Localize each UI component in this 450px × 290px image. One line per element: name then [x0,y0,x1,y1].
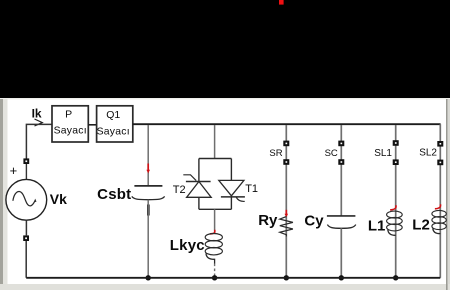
svg-text:+: + [10,163,18,178]
wire SC branch upper [340,125,342,216]
block Q1 Sayaci (Q1 counter) U2 [97,106,133,142]
wire Csbt branch drop [147,125,149,185]
wire thyristor to Lkyc [214,209,216,232]
svg-text:Ik: Ik [32,106,42,120]
inductor Lkyc [205,234,222,264]
terminal square Vk bottom [23,235,29,241]
red current arrow on Csbt branch [146,164,150,174]
junction dot L1/bus [393,275,398,280]
svg-text:SL1: SL1 [374,148,392,159]
red current mark on L2 [435,204,441,209]
switch SC terminal square lower [338,159,344,165]
svg-text:Csbt: Csbt [97,186,131,203]
switch SL1 terminal square upper [393,140,399,146]
red current arrow on Ry [285,210,289,218]
svg-text:Vk: Vk [50,191,67,207]
capacitor Cy [327,216,356,228]
inductor L2 [432,210,446,233]
thyristor T2 [183,175,211,198]
thyristor pair frame top bar [199,158,232,160]
wire between P and Q1 counters [88,124,96,126]
wire left leg upper [198,159,200,182]
svg-text:SL2: SL2 [419,148,437,159]
terminal square Vk top [23,158,29,164]
svg-text:Cy: Cy [304,212,324,229]
resistor Ry [280,217,293,237]
capacitor Csbt [132,186,165,200]
svg-text:L1: L1 [368,217,386,234]
red current mark on L1 [390,205,396,210]
svg-text:Sayacı: Sayacı [54,126,87,137]
svg-text:P: P [65,109,72,121]
dashed wire Lkyc to bottom bus [214,264,216,278]
svg-text:SC: SC [325,148,338,159]
switch SL2 terminal square lower [437,160,443,166]
wire Csbt to bottom bus [147,200,149,278]
svg-text:L2: L2 [412,216,430,233]
red current mark on Lkyc [210,230,215,234]
switch SR terminal square lower [283,159,289,165]
wire right leg upper [230,159,232,181]
wire thyristor branch drop [214,125,216,159]
switch SL1 terminal square lower [393,159,399,165]
record indicator dot [279,0,284,5]
current arrow Ik [35,119,43,126]
black current marker below Csbt [147,205,150,216]
thyristor T1 [219,180,245,201]
dashed wire Cy to bottom bus [340,228,342,277]
wire Vk to bottom bus [25,220,27,278]
wire SL2 branch [439,124,441,278]
top bus wire [133,123,441,125]
switch SR terminal square upper [283,141,289,147]
svg-text:T2: T2 [173,184,186,196]
svg-text:Lkyc: Lkyc [170,237,205,254]
junction dot Cy/bus [339,275,344,280]
switch SC terminal square upper [338,141,344,147]
svg-text:Sayacı: Sayacı [97,126,130,137]
thyristor pair frame bottom bar [199,208,232,210]
inductor L1 [387,211,403,235]
svg-text:SR: SR [269,148,282,159]
block P Sayaci (P counter) U1 [52,106,88,142]
wire SR branch [285,125,287,278]
wire right leg lower [230,197,232,209]
switch SL2 terminal square upper [437,141,443,147]
wire SL1 branch [395,125,397,278]
junction dot Lkyc/bus [212,275,217,280]
junction dot Csbt/bus [146,275,151,280]
svg-text:T1: T1 [245,183,258,195]
AC source Vk [6,179,47,220]
bottom bus wire [26,277,440,279]
junction dot Ry/bus [284,275,289,280]
svg-text:Ry: Ry [258,212,278,229]
wire from Vk to P counter [26,124,52,158]
svg-text:Q1: Q1 [106,109,120,121]
wire left leg lower [198,197,200,209]
wire square to Vk circle [25,164,27,180]
